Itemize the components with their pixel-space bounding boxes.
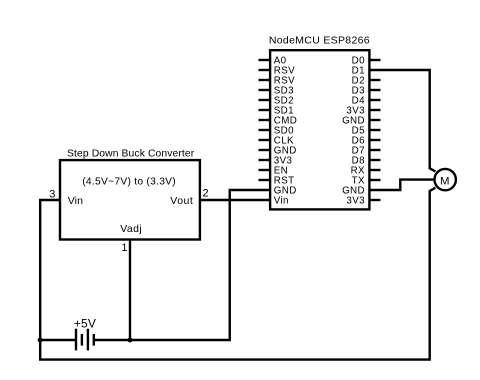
wire buck Vadj pin1 to battery negative junction <box>129 240 131 341</box>
U1 left pin labels <box>274 56 297 207</box>
wire buck Vout pin2 to NodeMCU Vin <box>200 199 270 201</box>
junction node battery negative <box>128 338 133 343</box>
svg-text:(4.5V~7V) to (3.3V): (4.5V~7V) to (3.3V) <box>82 176 176 187</box>
wire NodeMCU GND (right) to motor left <box>369 180 435 190</box>
svg-text:M: M <box>440 176 450 188</box>
svg-text:+5V: +5V <box>74 316 96 330</box>
svg-text:3V3: 3V3 <box>346 196 365 207</box>
IC U1 NodeMCU ESP8266 body <box>270 50 369 209</box>
svg-text:3: 3 <box>49 188 55 200</box>
svg-text:1: 1 <box>121 242 127 254</box>
svg-text:Vout: Vout <box>170 195 193 207</box>
svg-text:Step Down Buck Converter: Step Down Buck Converter <box>67 148 195 159</box>
wire NodeMCU D1 to motor top <box>369 70 435 172</box>
svg-text:Vin: Vin <box>274 196 289 207</box>
motor M1 circle <box>435 169 456 190</box>
svg-text:NodeMCU ESP8266: NodeMCU ESP8266 <box>269 34 370 46</box>
wire NodeMCU GND (left) down and to battery negative <box>94 190 270 340</box>
svg-text:Vadj: Vadj <box>120 223 142 235</box>
U1 right pin stubs (D0..3V3) <box>369 60 380 200</box>
U1 right pin labels <box>342 56 365 207</box>
svg-text:2: 2 <box>203 188 209 200</box>
svg-text:Vin: Vin <box>68 195 83 207</box>
regulator U2 Step Down Buck Converter body <box>60 160 200 239</box>
junction node battery positive <box>38 338 43 343</box>
battery BT1 plates <box>76 329 94 351</box>
wire battery positive to left junction <box>40 339 76 341</box>
wire buck Vin pin3 / battery positive / motor bottom loop <box>40 188 435 360</box>
U1 left pin stubs (A0..Vin) <box>259 60 271 180</box>
